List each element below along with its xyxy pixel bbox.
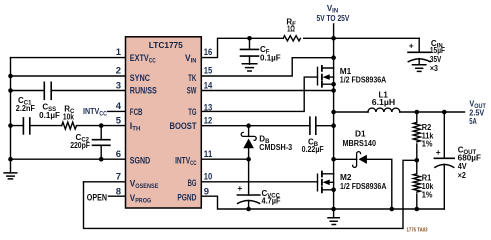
svg-text:1775 TA03: 1775 TA03 [407, 227, 428, 233]
svg-text:+: + [409, 40, 414, 50]
svg-text:0.1µF: 0.1µF [39, 111, 60, 120]
svg-text:4.7µF: 4.7µF [262, 197, 281, 206]
svg-text:LTC1775: LTC1775 [149, 40, 183, 50]
svg-text:CMDSH-3: CMDSH-3 [259, 143, 292, 152]
svg-text:MBRS140: MBRS140 [343, 139, 377, 148]
svg-text:VIN: VIN [327, 4, 338, 15]
svg-text:15: 15 [204, 65, 213, 76]
svg-text:1%: 1% [422, 140, 433, 149]
svg-text:4: 4 [116, 101, 122, 112]
svg-text:6.1µH: 6.1µH [372, 98, 396, 107]
svg-text:TG: TG [188, 107, 196, 117]
svg-text:INTVCC: INTVCC [83, 107, 108, 118]
svg-text:3: 3 [116, 80, 121, 91]
svg-text:FCB: FCB [130, 107, 143, 117]
svg-text:PGND: PGND [177, 192, 196, 202]
svg-text:SYNC: SYNC [130, 73, 150, 83]
svg-text:RUN/SS: RUN/SS [130, 86, 157, 96]
svg-text:SGND: SGND [130, 156, 151, 166]
svg-text:15µF: 15µF [430, 46, 445, 55]
svg-text:1/2 FDS8936A: 1/2 FDS8936A [340, 75, 387, 84]
svg-text:13: 13 [204, 103, 213, 114]
svg-text:OPEN: OPEN [87, 192, 107, 202]
svg-text:11: 11 [204, 149, 213, 160]
svg-text:1Ω: 1Ω [287, 25, 295, 34]
svg-text:TK: TK [188, 73, 197, 83]
svg-text:680µF: 680µF [458, 153, 481, 162]
svg-text:+: + [436, 147, 441, 157]
svg-text:12: 12 [204, 115, 213, 126]
svg-text:SW: SW [187, 86, 197, 96]
svg-text:1/2 FDS8936A: 1/2 FDS8936A [340, 182, 387, 191]
svg-text:5V TO 25V: 5V TO 25V [317, 14, 350, 23]
svg-text:220pF: 220pF [70, 141, 90, 150]
svg-text:16: 16 [204, 47, 213, 58]
svg-text:×3: ×3 [430, 64, 439, 73]
svg-text:0.22µF: 0.22µF [302, 145, 324, 154]
svg-text:6: 6 [116, 149, 121, 160]
svg-text:M2: M2 [340, 173, 352, 182]
svg-text:5: 5 [116, 115, 122, 126]
svg-text:10: 10 [204, 172, 213, 183]
svg-text:4V: 4V [458, 162, 468, 171]
svg-text:BOOST: BOOST [170, 121, 197, 131]
svg-text:2.2nF: 2.2nF [16, 104, 35, 113]
svg-text:7: 7 [116, 172, 121, 183]
svg-text:BG: BG [188, 178, 197, 188]
svg-text:+: + [237, 183, 242, 193]
svg-text:14: 14 [204, 80, 213, 91]
svg-text:0.1µF: 0.1µF [260, 54, 281, 63]
svg-text:35V: 35V [430, 55, 442, 64]
svg-text:9: 9 [204, 186, 209, 197]
svg-text:1%: 1% [422, 191, 433, 200]
svg-text:10k: 10k [63, 113, 75, 122]
svg-text:D1: D1 [355, 129, 366, 138]
svg-text:2: 2 [116, 65, 121, 76]
svg-text:×2: ×2 [458, 171, 467, 180]
svg-text:1: 1 [116, 47, 122, 58]
svg-text:8: 8 [116, 186, 121, 197]
svg-text:5A: 5A [469, 117, 477, 126]
